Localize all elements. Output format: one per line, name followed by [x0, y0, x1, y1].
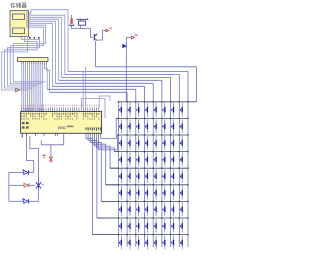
LED D48 — [180, 152, 183, 166]
wire Q1 emitter to bus — [95, 41, 97, 67]
LED D13 — [137, 103, 140, 117]
LED D16 — [163, 103, 166, 117]
wire U2 pin3 to matrix bus — [29, 17, 62, 77]
LED D42 — [128, 152, 131, 166]
wire C3 right — [29, 200, 39, 202]
LED D83 — [137, 219, 140, 233]
LED D33 — [137, 136, 140, 150]
wire MCU pin to crystal — [30, 136, 39, 182]
LED D66 — [163, 186, 166, 200]
wire MCU pin to bus A — [82, 71, 84, 107]
LED D61 — [119, 186, 122, 200]
LED D44 — [145, 152, 148, 166]
LED D23 — [137, 119, 140, 133]
LED D85 — [154, 219, 157, 233]
LED D54 — [145, 169, 148, 183]
LED D56 — [163, 169, 166, 183]
LED D51 — [119, 169, 122, 183]
LED D47 — [171, 152, 174, 166]
junction dots near U2 bottom — [29, 37, 40, 39]
wire D1 left — [9, 184, 24, 186]
wire D1 to X1 — [29, 184, 36, 186]
LED D15 — [154, 103, 157, 117]
LED D63 — [137, 186, 140, 200]
MCU U1 top pins with numbers — [21, 105, 99, 112]
LED D35 — [154, 136, 157, 150]
net label memory title 存储器 — [10, 1, 27, 9]
LED D98 — [180, 235, 183, 249]
LED D75 — [154, 202, 157, 216]
LED D41 — [119, 152, 122, 166]
LED D28 — [180, 119, 183, 133]
wire MCU pin to matrix top — [99, 96, 110, 108]
MCU U1 part number text — [58, 126, 74, 130]
LED D95 — [154, 235, 157, 249]
LED D92 — [128, 235, 131, 249]
wire MCU pin to bus B — [85, 67, 87, 108]
LED D18 — [180, 103, 183, 117]
matrix row wires — [93, 102, 197, 235]
LED D53 — [137, 169, 140, 183]
LED D14 — [145, 103, 148, 117]
LED D45 — [154, 152, 157, 166]
buzzer LS1 — [77, 18, 89, 25]
wire MCU pin to C1 rail — [26, 136, 33, 173]
wire C3 left — [9, 200, 24, 202]
wire Q1 collector to VCC — [98, 31, 106, 41]
wire MCU pin to matrix row2 — [82, 99, 106, 118]
LED D72 — [128, 202, 131, 216]
LED D37 — [171, 136, 174, 150]
wire U2 pin2 to matrix bus — [29, 15, 65, 74]
LED D38 — [180, 136, 183, 150]
LED D52 — [128, 169, 131, 183]
LCD1 bottom pins — [22, 62, 47, 65]
wires MCU port to matrix rows staircase — [86, 118, 118, 234]
wire U2 bottom pin3 spiral to MCU — [2, 37, 30, 90]
wire U2 pin4 to matrix bus — [29, 19, 59, 80]
LED D11 — [119, 103, 122, 117]
MCU U1 left labels — [22, 122, 29, 129]
MCU U1 bottom left pins — [21, 133, 44, 137]
svg-text:存储器: 存储器 — [10, 1, 27, 9]
LED D68 — [180, 186, 183, 200]
LED D12 — [128, 103, 131, 117]
LED D32 — [128, 136, 131, 150]
LED D62 — [128, 186, 131, 200]
LED D21 — [119, 119, 122, 133]
LED D46 — [163, 152, 166, 166]
LED D58 — [180, 169, 183, 183]
memory block U2 window 1 — [13, 14, 25, 20]
LED D73 — [137, 202, 140, 216]
wire VCC mid down to matrix — [125, 37, 127, 101]
memory block U2 window 2 — [13, 28, 25, 34]
LED D34 — [145, 136, 148, 150]
crystal X1 — [36, 181, 44, 189]
capacitor C1 — [22, 169, 29, 175]
power terminal VCC mid — [126, 34, 137, 39]
MCU U1 bottom right pin names — [85, 127, 101, 130]
memory block U2 body — [10, 11, 29, 37]
wire X1 bottom — [38, 189, 40, 201]
matrix column wires — [118, 102, 188, 247]
wire U2 bottom pin1 spiral to MCU — [7, 37, 39, 86]
LED D43 — [137, 152, 140, 166]
wire U2 pin8 spiral to MCU — [10, 27, 43, 84]
LED D25 — [154, 119, 157, 133]
LED D26 — [163, 119, 166, 133]
LED D84 — [145, 219, 148, 233]
capacitor C3 — [22, 198, 29, 204]
wire U2 pin1 to matrix bus — [29, 10, 69, 72]
LED D74 — [145, 202, 148, 216]
memory block U2 right pins 1-8 — [26, 12, 31, 27]
LED D55 — [154, 169, 157, 183]
MCU U1 pin name rows — [21, 113, 99, 120]
LED D67 — [171, 186, 174, 200]
LED D57 — [171, 169, 174, 183]
wire U2 pin5 to matrix bus — [29, 21, 56, 83]
LED D93 — [137, 235, 140, 249]
wire MCU reset loop — [41, 133, 63, 157]
LED D91 — [119, 235, 122, 249]
wire left rail — [8, 173, 10, 202]
input terminal arrow — [16, 88, 20, 92]
LED D17 — [171, 103, 174, 117]
wire C4 to buzzer — [72, 25, 81, 29]
LED D71 — [119, 202, 122, 216]
matrix column bus nest — [47, 67, 196, 102]
wire U2 pin7 spiral to MCU — [13, 25, 45, 82]
wire C1 left — [9, 172, 24, 174]
crystal X1 label red — [43, 155, 46, 159]
wires LCD1 right pins to matrix bus — [45, 65, 50, 93]
diode D1 red — [24, 183, 29, 187]
LED D64 — [145, 186, 148, 200]
LED D65 — [154, 186, 157, 200]
LED D82 — [128, 219, 131, 233]
LED D77 — [171, 202, 174, 216]
LED D27 — [171, 119, 174, 133]
LED D97 — [171, 235, 174, 249]
wire U2 pin6 to matrix bus — [29, 23, 53, 86]
power terminal red bottom — [49, 157, 53, 163]
LED D86 — [163, 219, 166, 233]
MCU U1 bottom right pins — [86, 133, 101, 136]
LED D24 — [145, 119, 148, 133]
wire U2 bottom pin2 spiral to MCU — [5, 37, 38, 88]
LED D87 — [171, 219, 174, 233]
LCD connector LCD1 body — [18, 58, 49, 62]
LED D81 — [119, 219, 122, 233]
svg-text:8052: 8052 — [58, 126, 66, 130]
wires LCD1 pins to MCU top — [22, 65, 43, 112]
LED D22 — [128, 119, 131, 133]
matrix junction dots — [118, 101, 189, 235]
LED D96 — [163, 235, 166, 249]
LED D78 — [180, 202, 183, 216]
MCU U1 body — [21, 112, 102, 134]
LED D88 — [180, 219, 183, 233]
capacitor C5 — [123, 44, 127, 48]
power terminal VCC top right — [106, 28, 112, 32]
wire buzzer to Q1 base — [81, 29, 93, 38]
LED D31 — [119, 136, 122, 150]
capacitor C4 red label — [69, 15, 75, 25]
transistor Q1 — [94, 34, 97, 41]
LED D36 — [163, 136, 166, 150]
LED D76 — [163, 202, 166, 216]
LED D94 — [145, 235, 148, 249]
wire C1 right — [29, 172, 34, 174]
